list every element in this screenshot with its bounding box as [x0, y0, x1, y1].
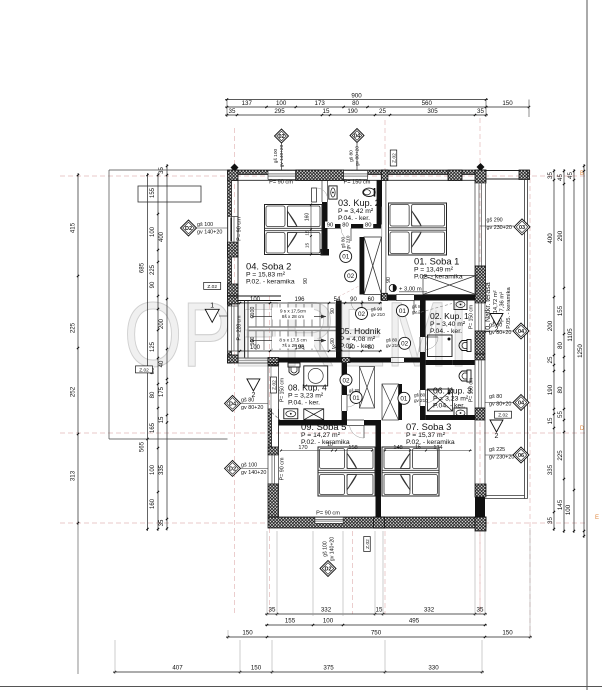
- svg-text:80: 80: [557, 386, 564, 393]
- svg-text:560: 560: [422, 100, 433, 107]
- svg-text:02: 02: [347, 273, 355, 280]
- svg-text:+ 3,00 m: + 3,00 m: [399, 286, 422, 292]
- svg-text:150: 150: [502, 100, 513, 107]
- svg-text:100: 100: [250, 345, 261, 351]
- svg-text:400: 400: [547, 233, 554, 244]
- svg-text:90: 90: [303, 278, 309, 284]
- svg-text:100: 100: [250, 297, 261, 303]
- svg-text:15: 15: [305, 230, 311, 236]
- svg-text:P= 150 cm: P= 150 cm: [469, 305, 475, 329]
- svg-text:495: 495: [409, 618, 420, 625]
- svg-text:8š x 28 cm: 8š x 28 cm: [282, 314, 304, 319]
- svg-text:134: 134: [433, 445, 442, 451]
- svg-text:gš 225: gš 225: [489, 447, 505, 453]
- svg-text:35: 35: [159, 519, 165, 526]
- svg-text:gš 80: gš 80: [414, 393, 426, 398]
- svg-text:375: 375: [323, 665, 334, 672]
- svg-text:02. Kup. 1: 02. Kup. 1: [430, 311, 469, 321]
- svg-text:gš 80: gš 80: [412, 304, 424, 309]
- svg-text:54: 54: [334, 297, 341, 303]
- svg-text:P.04. - ker.: P.04. - ker.: [288, 399, 320, 406]
- svg-text:45: 45: [557, 174, 564, 181]
- svg-text:04: 04: [518, 329, 525, 335]
- svg-text:gv 210: gv 210: [346, 235, 351, 249]
- svg-text:55: 55: [557, 411, 564, 418]
- svg-text:150: 150: [502, 630, 513, 637]
- svg-text:565: 565: [139, 441, 146, 452]
- svg-text:90: 90: [386, 277, 392, 283]
- svg-text:200: 200: [159, 318, 165, 329]
- svg-text:90: 90: [327, 223, 333, 229]
- svg-text:335: 335: [547, 464, 554, 475]
- svg-text:04. Soba 2: 04. Soba 2: [246, 261, 291, 272]
- svg-text:8 s x 17,5 cm: 8 s x 17,5 cm: [279, 337, 306, 342]
- svg-text:100: 100: [250, 337, 256, 346]
- svg-text:03. Kup. 2: 03. Kup. 2: [338, 198, 380, 208]
- svg-text:gš 80: gš 80: [349, 150, 355, 162]
- svg-text:D2: D2: [324, 567, 331, 573]
- svg-text:02: 02: [278, 134, 284, 140]
- svg-text:335: 335: [159, 464, 165, 475]
- svg-text:148: 148: [393, 445, 402, 451]
- svg-text:15: 15: [323, 108, 330, 115]
- svg-text:1: 1: [210, 302, 214, 309]
- svg-text:290: 290: [557, 230, 564, 241]
- svg-text:252: 252: [70, 386, 77, 397]
- svg-text:332: 332: [321, 607, 332, 614]
- svg-text:80: 80: [150, 391, 156, 398]
- svg-text:E: E: [595, 515, 599, 521]
- svg-text:2: 2: [251, 392, 255, 399]
- svg-text:gš 80: gš 80: [386, 338, 398, 343]
- svg-text:06. Kup. 3: 06. Kup. 3: [433, 386, 472, 396]
- svg-text:gš 90: gš 90: [371, 307, 383, 312]
- svg-text:165: 165: [150, 422, 156, 433]
- svg-text:160: 160: [305, 213, 311, 222]
- svg-text:Z.02: Z.02: [498, 413, 508, 419]
- svg-text:01: 01: [400, 396, 408, 403]
- svg-text:90: 90: [350, 297, 357, 303]
- svg-text:2: 2: [495, 433, 499, 440]
- svg-text:100: 100: [150, 226, 156, 237]
- svg-text:gš 290: gš 290: [487, 218, 503, 224]
- svg-text:15: 15: [305, 243, 311, 249]
- svg-text:08. Kup. 4: 08. Kup. 4: [288, 383, 327, 393]
- svg-text:06: 06: [518, 453, 524, 459]
- svg-text:750: 750: [371, 630, 382, 637]
- svg-text:190: 190: [347, 108, 358, 115]
- svg-text:196: 196: [294, 297, 305, 303]
- svg-text:295: 295: [274, 108, 285, 115]
- svg-text:155: 155: [557, 305, 564, 316]
- svg-text:04: 04: [354, 134, 361, 140]
- svg-text:P.02. - keramika: P.02. - keramika: [246, 278, 295, 285]
- svg-text:04: 04: [518, 401, 525, 407]
- svg-text:P= 228 cm: P= 228 cm: [237, 316, 243, 341]
- svg-text:407: 407: [172, 665, 183, 672]
- svg-text:gv 140+20: gv 140+20: [197, 230, 222, 236]
- svg-text:150: 150: [242, 630, 253, 637]
- svg-text:225: 225: [150, 264, 156, 275]
- svg-text:137: 137: [242, 100, 253, 107]
- svg-text:02: 02: [342, 377, 350, 384]
- svg-text:35: 35: [477, 607, 484, 614]
- svg-text:100: 100: [276, 100, 287, 107]
- svg-text:01: 01: [353, 395, 361, 402]
- svg-text:gv 80+20: gv 80+20: [355, 146, 361, 166]
- svg-text:15: 15: [547, 417, 554, 424]
- svg-text:1250: 1250: [577, 344, 584, 358]
- svg-text:175: 175: [159, 386, 165, 397]
- svg-text:gš 80: gš 80: [489, 394, 502, 400]
- svg-text:gš 100: gš 100: [241, 463, 257, 469]
- svg-text:Z.02: Z.02: [392, 153, 398, 163]
- svg-text:gv 80+20: gv 80+20: [241, 405, 263, 411]
- svg-text:170: 170: [298, 445, 307, 451]
- svg-text:332: 332: [424, 607, 435, 614]
- svg-text:gš 100: gš 100: [273, 148, 279, 163]
- svg-text:9 s x 17,5cm: 9 s x 17,5cm: [280, 308, 306, 313]
- svg-text:01. Soba 1: 01. Soba 1: [414, 256, 459, 267]
- svg-text:D4: D4: [229, 402, 237, 408]
- svg-text:160: 160: [150, 498, 156, 509]
- svg-text:90: 90: [150, 281, 156, 288]
- svg-text:gv 140+20: gv 140+20: [241, 470, 266, 476]
- svg-text:P= 90 cm: P= 90 cm: [280, 457, 286, 480]
- svg-text:225: 225: [557, 450, 564, 461]
- svg-text:35: 35: [547, 172, 554, 179]
- svg-text:07. Soba 3: 07. Soba 3: [406, 421, 451, 432]
- svg-text:gv 210: gv 210: [414, 398, 428, 403]
- svg-text:02: 02: [358, 311, 366, 318]
- svg-text:P= 150 cm: P= 150 cm: [344, 180, 371, 186]
- svg-text:05. Hodnik: 05. Hodnik: [340, 326, 381, 336]
- svg-text:D2: D2: [185, 226, 192, 232]
- svg-text:Z.02: Z.02: [207, 284, 217, 290]
- svg-text:80: 80: [342, 223, 348, 229]
- svg-text:Z.02: Z.02: [272, 380, 278, 390]
- svg-text:173: 173: [315, 100, 326, 107]
- svg-text:196: 196: [294, 345, 305, 351]
- svg-text:155: 155: [150, 187, 156, 198]
- svg-text:45: 45: [567, 172, 574, 179]
- svg-text:gv 140+20: gv 140+20: [279, 144, 285, 167]
- svg-text:D2: D2: [229, 467, 236, 473]
- svg-text:P= 90 cm: P= 90 cm: [316, 511, 340, 517]
- svg-text:2: 2: [495, 327, 499, 334]
- svg-text:P.04. - ker.: P.04. - ker.: [433, 402, 465, 409]
- svg-text:P.05. - keramika: P.05. - keramika: [506, 287, 512, 329]
- svg-text:P.04. - ker.: P.04. - ker.: [430, 328, 462, 335]
- svg-text:P.02. - ker.: P.02. - ker.: [340, 343, 372, 350]
- svg-text:100: 100: [565, 504, 572, 515]
- svg-text:01: 01: [399, 308, 407, 315]
- svg-text:158: 158: [348, 445, 357, 451]
- svg-text:90: 90: [330, 308, 336, 314]
- svg-text:P= 90 cm: P= 90 cm: [237, 217, 243, 241]
- svg-text:45: 45: [388, 295, 393, 301]
- svg-text:60: 60: [368, 297, 375, 303]
- svg-text:125: 125: [150, 341, 156, 352]
- svg-text:15: 15: [159, 416, 165, 423]
- svg-text:145: 145: [557, 499, 564, 510]
- svg-text:35: 35: [269, 607, 276, 614]
- svg-text:gš 100: gš 100: [197, 222, 213, 228]
- svg-text:313: 313: [70, 470, 77, 481]
- svg-text:80: 80: [352, 100, 359, 107]
- svg-text:P.02. - keramika: P.02. - keramika: [406, 439, 455, 446]
- svg-text:gv 210: gv 210: [371, 312, 385, 317]
- svg-text:35: 35: [229, 108, 236, 115]
- svg-text:80: 80: [557, 342, 564, 349]
- svg-text:09. Soba 5: 09. Soba 5: [301, 421, 346, 432]
- svg-text:P.02. - keramika: P.02. - keramika: [414, 273, 463, 280]
- svg-text:1105: 1105: [567, 328, 574, 342]
- svg-text:685: 685: [139, 262, 146, 273]
- svg-text:900: 900: [351, 92, 362, 99]
- svg-text:03: 03: [519, 225, 525, 231]
- svg-text:*P = 7,36 m²: *P = 7,36 m²: [500, 292, 506, 324]
- svg-text:415: 415: [70, 222, 77, 233]
- svg-text:Z.02: Z.02: [365, 539, 371, 549]
- svg-text:34: 34: [332, 345, 339, 351]
- svg-text:P.02. - keramika: P.02. - keramika: [301, 439, 350, 446]
- svg-text:190: 190: [547, 384, 554, 395]
- svg-text:155: 155: [285, 618, 296, 625]
- svg-text:305: 305: [427, 108, 438, 115]
- svg-text:90: 90: [330, 338, 336, 344]
- svg-text:100: 100: [150, 464, 156, 475]
- svg-text:15: 15: [376, 607, 383, 614]
- svg-text:01: 01: [342, 254, 350, 261]
- svg-text:25: 25: [379, 108, 386, 115]
- svg-text:100: 100: [250, 307, 256, 316]
- svg-text:gv 210: gv 210: [412, 310, 426, 315]
- svg-text:P= 150 cm: P= 150 cm: [280, 378, 286, 402]
- svg-text:330: 330: [428, 665, 439, 672]
- svg-text:gv 140+20: gv 140+20: [330, 537, 336, 561]
- svg-text:gv 230+20: gv 230+20: [489, 455, 514, 461]
- svg-text:02: 02: [401, 341, 409, 348]
- svg-text:35: 35: [547, 517, 554, 524]
- svg-text:gv 210: gv 210: [386, 343, 400, 348]
- svg-text:200: 200: [547, 320, 554, 331]
- svg-text:gš 80: gš 80: [349, 388, 360, 393]
- svg-text:gš 100: gš 100: [323, 541, 329, 557]
- svg-text:P.04. - ker.: P.04. - ker.: [338, 215, 370, 222]
- svg-text:P= 90 cm: P= 90 cm: [269, 180, 293, 186]
- svg-text:Z.02: Z.02: [139, 367, 149, 373]
- svg-text:80: 80: [365, 223, 371, 229]
- svg-text:225: 225: [70, 322, 77, 333]
- svg-text:100: 100: [323, 618, 334, 625]
- svg-text:25: 25: [547, 356, 554, 363]
- svg-text:40: 40: [159, 360, 165, 367]
- svg-text:400: 400: [159, 231, 165, 242]
- svg-text:35: 35: [477, 108, 484, 115]
- svg-text:150: 150: [251, 665, 262, 672]
